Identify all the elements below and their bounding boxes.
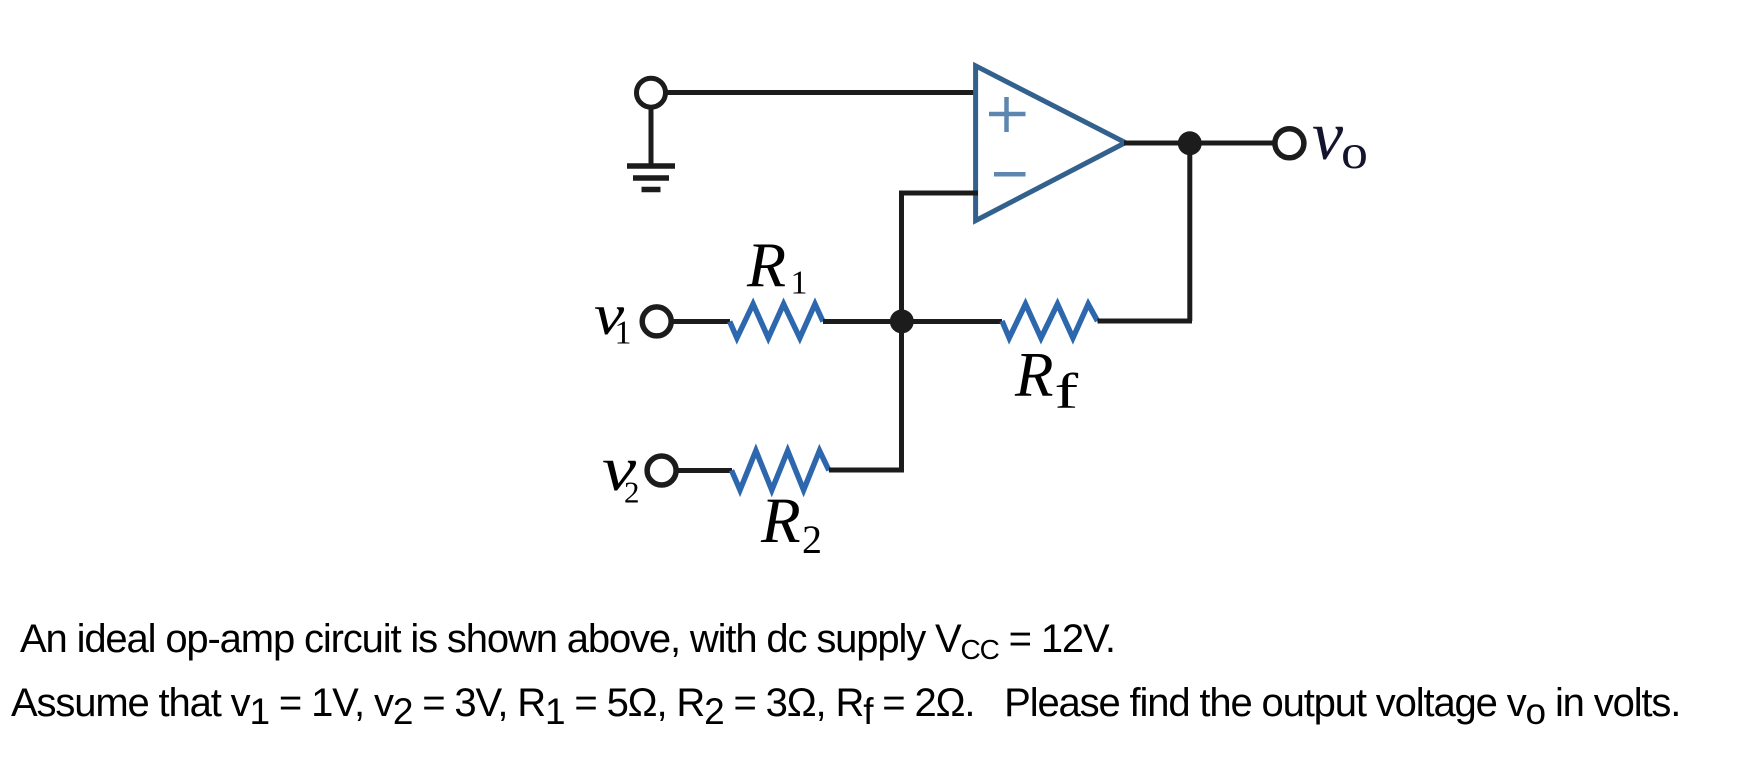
output terminal vo xyxy=(1275,129,1304,158)
svg-text:v: v xyxy=(1312,98,1344,175)
node summing junction xyxy=(890,309,914,333)
wire v2 to R2 xyxy=(676,468,732,473)
node output junction xyxy=(1178,131,1202,155)
svg-text:R: R xyxy=(760,485,801,557)
wire op-amp output xyxy=(1124,141,1275,146)
terminal v1 xyxy=(642,307,671,336)
wire Rf to output xyxy=(1098,319,1193,324)
wire noninverting input xyxy=(666,90,979,95)
problem text line 1 xyxy=(20,619,1115,663)
svg-text:2: 2 xyxy=(802,517,822,562)
wire feedback vertical xyxy=(1187,143,1192,321)
ground xyxy=(627,166,675,190)
wire R2 to vertical xyxy=(829,468,904,473)
svg-text:1: 1 xyxy=(615,315,632,352)
svg-text:1: 1 xyxy=(791,265,808,302)
svg-text:R: R xyxy=(1014,340,1053,410)
problem text line 2 xyxy=(11,683,1680,724)
resistor R2 xyxy=(732,451,829,490)
resistor Rf xyxy=(1002,304,1098,338)
input terminal (ground side) xyxy=(637,78,666,107)
resistor R1 xyxy=(730,304,823,338)
wire ground stem xyxy=(649,107,654,166)
svg-text:R: R xyxy=(746,230,786,301)
svg-text:f: f xyxy=(1055,364,1079,419)
wire inverting input xyxy=(902,193,979,470)
svg-text:o: o xyxy=(1341,125,1368,179)
terminal v2 xyxy=(647,456,676,485)
wire v1 to R1 xyxy=(671,319,730,324)
op-amp U1 xyxy=(976,66,1126,221)
svg-text:2: 2 xyxy=(624,475,640,510)
wire R1 to node xyxy=(823,319,1002,324)
